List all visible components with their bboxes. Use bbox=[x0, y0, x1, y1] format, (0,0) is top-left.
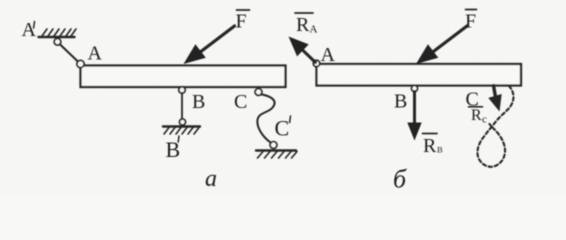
svg-text:B: B bbox=[192, 91, 205, 113]
svg-text:A: A bbox=[88, 43, 103, 65]
svg-text:F: F bbox=[465, 11, 476, 33]
svg-text:C: C bbox=[275, 116, 290, 141]
svg-text:A: A bbox=[310, 24, 318, 36]
svg-text:c: c bbox=[482, 114, 487, 126]
svg-text:A: A bbox=[22, 19, 37, 41]
svg-text:R: R bbox=[296, 14, 310, 36]
svg-text:B: B bbox=[394, 91, 407, 113]
svg-text:F: F bbox=[236, 11, 247, 33]
svg-text:R: R bbox=[423, 135, 437, 157]
svg-text:б: б bbox=[393, 165, 407, 194]
svg-text:C: C bbox=[234, 91, 247, 113]
svg-text:а: а bbox=[205, 166, 217, 192]
svg-text:A: A bbox=[321, 44, 336, 66]
svg-text:R: R bbox=[471, 107, 482, 124]
svg-text:B: B bbox=[437, 145, 443, 155]
svg-text:B: B bbox=[166, 137, 181, 162]
